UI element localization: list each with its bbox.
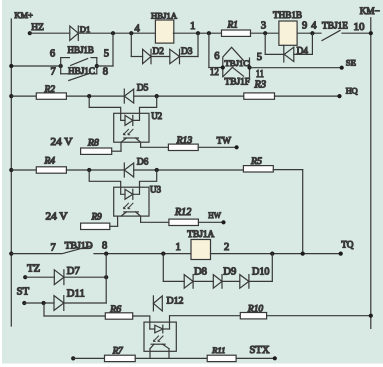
svg-text:D12: D12 [167,295,184,306]
svg-text:D11: D11 [67,289,85,300]
svg-text:5: 5 [257,52,262,63]
svg-text:12: 12 [210,67,219,78]
svg-text:8: 8 [102,241,107,252]
svg-text:D8: D8 [194,267,207,278]
svg-text:24 V: 24 V [46,212,68,223]
svg-text:10: 10 [354,22,365,33]
svg-text:STX: STX [250,345,270,356]
svg-text:D2: D2 [153,47,165,57]
svg-text:6: 6 [214,51,219,62]
svg-text:D9: D9 [223,267,236,278]
svg-text:R1: R1 [227,20,238,30]
svg-text:KM−: KM− [360,6,380,16]
svg-text:1: 1 [176,242,181,253]
svg-text:D7: D7 [67,266,80,277]
svg-text:SE: SE [346,57,356,67]
svg-text:R9: R9 [91,212,102,222]
svg-text:HBJ1B: HBJ1B [68,45,94,55]
svg-text:R12: R12 [174,207,191,218]
svg-text:3: 3 [261,21,266,32]
svg-text:HQ: HQ [346,86,359,96]
svg-text:4: 4 [135,23,141,34]
svg-text:TBJ1F: TBJ1F [225,77,251,87]
svg-text:TZ: TZ [27,264,40,275]
svg-text:KM+: KM+ [14,10,33,20]
svg-text:6: 6 [50,49,55,60]
svg-text:THB1B: THB1B [273,10,302,20]
svg-text:U2: U2 [151,111,162,121]
svg-text:HW: HW [208,210,221,220]
svg-text:TBJ1A: TBJ1A [187,230,214,240]
svg-text:D4: D4 [297,46,309,57]
svg-text:24 V: 24 V [51,137,73,148]
svg-text:D10: D10 [252,267,270,278]
svg-text:HBJ1C: HBJ1C [68,66,95,76]
svg-text:D5: D5 [137,84,149,94]
svg-text:D1: D1 [80,24,91,34]
svg-text:TBJ1C: TBJ1C [225,58,250,68]
svg-text:4: 4 [311,21,317,32]
svg-text:11: 11 [256,69,264,80]
svg-text:ST: ST [17,287,30,298]
svg-text:R10: R10 [247,304,264,314]
svg-text:R6: R6 [109,304,121,315]
svg-text:7: 7 [51,243,56,254]
svg-text:7: 7 [51,66,56,77]
svg-text:9: 9 [302,21,307,32]
svg-text:HBJ1A: HBJ1A [151,11,178,21]
svg-text:HZ: HZ [31,23,44,33]
svg-text:R3: R3 [254,80,267,91]
svg-text:D3: D3 [181,47,193,57]
svg-text:TW: TW [217,137,232,147]
svg-text:R11: R11 [211,345,225,355]
svg-text:U3: U3 [150,185,161,195]
svg-text:R5: R5 [250,156,262,167]
svg-text:D6: D6 [137,158,149,168]
svg-text:8: 8 [103,66,108,77]
svg-text:1: 1 [190,21,195,32]
svg-text:2: 2 [224,242,229,253]
svg-text:R8: R8 [87,137,99,148]
svg-text:5: 5 [104,49,109,60]
svg-text:TBJ1E: TBJ1E [322,21,348,31]
svg-text:R13: R13 [176,135,193,146]
svg-text:R7: R7 [112,346,123,356]
svg-text:TQ: TQ [341,240,354,250]
svg-text:R2: R2 [43,85,55,95]
svg-text:R4: R4 [43,157,55,167]
